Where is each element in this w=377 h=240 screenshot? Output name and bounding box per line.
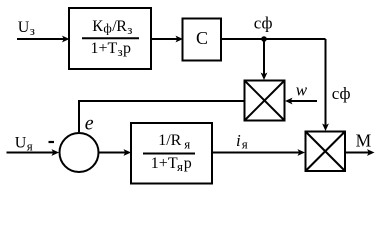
node: junction dot	[261, 36, 267, 42]
summing junction circle	[60, 133, 99, 172]
wire: w input arrow	[285, 98, 317, 105]
svg-text:сф: сф	[332, 84, 351, 103]
block C	[183, 19, 222, 61]
svg-text:К: К	[92, 18, 103, 35]
node label сф (right)	[332, 84, 351, 103]
svg-text:U: U	[18, 19, 30, 36]
block W1: (Kф/Rз)/(1+Tзp)	[69, 8, 151, 69]
wire: W2 output iя to X2	[212, 149, 305, 156]
svg-text:p: p	[184, 155, 192, 172]
svg-text:я: я	[27, 138, 33, 153]
node label w	[296, 80, 308, 99]
wire: W1 to C	[151, 36, 183, 43]
wire: сф right vertical into X2	[322, 39, 329, 131]
wire: C output to right corner	[221, 38, 326, 40]
node label М	[356, 130, 372, 150]
svg-text:i: i	[236, 131, 241, 150]
svg-text:з: з	[30, 23, 35, 38]
node label iя	[236, 131, 248, 152]
node label Uя	[15, 134, 33, 153]
wire: Uя input arrow	[7, 149, 60, 156]
wire: Uz input arrow	[17, 36, 70, 43]
multiplier X1	[245, 81, 285, 121]
svg-text:U: U	[15, 134, 27, 151]
svg-text:з: з	[118, 44, 123, 59]
svg-text:я: я	[184, 137, 190, 152]
wire: M output arrow	[345, 149, 375, 156]
svg-text:1/R: 1/R	[158, 132, 181, 149]
minus sign	[49, 141, 55, 143]
svg-text:я: я	[242, 137, 248, 152]
wire: X1 output feedback to summing junction	[79, 101, 245, 132]
svg-text:C: C	[196, 28, 208, 48]
svg-text:ф: ф	[103, 21, 111, 36]
svg-text:R: R	[116, 18, 127, 35]
block W2: (1/Rя)/(1+Tяp)	[131, 123, 212, 184]
svg-text:сф: сф	[254, 14, 273, 33]
svg-text:e: e	[85, 113, 94, 135]
node label сф (top)	[254, 14, 273, 33]
node label Uз	[18, 19, 35, 38]
svg-text:я: я	[177, 159, 183, 174]
wire: junction down into X1	[261, 39, 268, 80]
multiplier X2	[306, 132, 346, 172]
svg-text:1+Т: 1+Т	[151, 155, 178, 172]
svg-text:з: з	[127, 22, 132, 37]
svg-text:1+Т: 1+Т	[91, 40, 118, 57]
node label e	[85, 113, 94, 135]
svg-text:w: w	[296, 80, 308, 99]
svg-text:p: p	[123, 40, 131, 57]
wire: summing junction to W2	[99, 149, 132, 156]
svg-text:М: М	[356, 130, 372, 150]
